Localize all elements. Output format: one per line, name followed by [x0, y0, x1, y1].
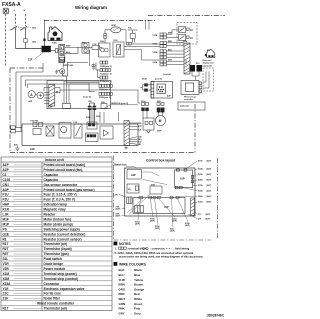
- svg-text:Blue: Blue: [134, 273, 141, 277]
- float switch S1L: [128, 30, 138, 43]
- svg-text:ORG: ORG: [119, 287, 126, 291]
- svg-text:Capacitor: Capacitor: [44, 173, 59, 177]
- relay K circle box: [59, 123, 71, 139]
- svg-text:Z1C: Z1C: [3, 292, 10, 296]
- L1R layout box: [127, 197, 132, 204]
- earth mark small: [55, 70, 60, 74]
- border left-top horizontal: [10, 67, 44, 69]
- svg-text:Wired remote controller: Wired remote controller: [37, 302, 75, 306]
- svg-text:PS: PS: [3, 227, 7, 231]
- connector column X50A: [99, 92, 112, 95]
- svg-text:F1U: F1U: [93, 44, 97, 46]
- fan wire labels: [138, 123, 143, 146]
- field wiring dashed box right: [203, 68, 214, 91]
- border bottom: [10, 152, 195, 154]
- fuse F1U: [89, 46, 103, 50]
- border right: [194, 104, 196, 153]
- fuse on N line: [24, 39, 27, 43]
- bottom callout leaders: [138, 199, 188, 228]
- svg-text:X16A: X16A: [153, 43, 158, 46]
- wires X1M to component row: [62, 47, 82, 76]
- svg-text:X35A: X35A: [153, 61, 158, 64]
- svg-text:Printed circuit board (fan): Printed circuit board (fan): [44, 168, 83, 172]
- wired remote text: [184, 96, 196, 102]
- svg-text:X24A(note 2): X24A(note 2): [100, 65, 112, 68]
- svg-text:(A1P): (A1P): [170, 230, 175, 233]
- pump pair: [126, 43, 131, 45]
- svg-text:controller: controller: [184, 98, 193, 101]
- svg-text:Y1E: Y1E: [3, 287, 9, 291]
- svg-text:C1R: C1R: [88, 101, 92, 103]
- earth top label line: [104, 105, 138, 109]
- svg-text:X25A: X25A: [153, 51, 158, 54]
- svg-text:X1M: X1M: [52, 43, 57, 45]
- svg-text::: :: [131, 297, 132, 301]
- svg-text:Brown: Brown: [134, 283, 143, 287]
- ground near connector column: [90, 50, 96, 69]
- svg-text:GRY: GRY: [119, 311, 125, 315]
- fan motor M1F: [156, 116, 166, 126]
- svg-text:Z1F: Z1F: [3, 297, 9, 301]
- svg-text:X33A: X33A: [198, 184, 203, 187]
- K1R relay right: [143, 118, 154, 133]
- svg-text:Ferrite core: Ferrite core: [44, 292, 62, 296]
- svg-text:X50A(note 2): X50A(note 2): [99, 96, 111, 99]
- border left: [9, 68, 11, 153]
- svg-text:FXSA-A: FXSA-A: [2, 2, 21, 8]
- svg-text:GRN/YLW: GRN/YLW: [64, 65, 73, 67]
- right callout column: [198, 160, 212, 221]
- svg-text:Control: Control: [163, 73, 171, 76]
- svg-text::: :: [131, 307, 132, 311]
- border top: [44, 19, 155, 21]
- svg-text:Thermistor (liquid): Thermistor (liquid): [44, 247, 72, 251]
- A2P box layout: [127, 170, 141, 180]
- svg-text:1.: 1.: [115, 247, 117, 251]
- remote controller nested box: [181, 81, 202, 95]
- svg-text:Printed circuit board (main): Printed circuit board (main): [44, 163, 86, 167]
- svg-text:White: White: [134, 297, 142, 301]
- svg-text:Wiring diagram: Wiring diagram: [75, 5, 107, 10]
- stubs on wide box: [139, 196, 179, 198]
- bottom callouts: [135, 218, 190, 233]
- code leader lines: [14, 165, 42, 309]
- A1P pcb layout box: [175, 169, 194, 189]
- svg-text:X2M: X2M: [151, 184, 155, 186]
- svg-text:(A1P): (A1P): [207, 179, 212, 182]
- board bottom stubs: [100, 112, 119, 123]
- svg-text:(optional): (optional): [203, 64, 212, 67]
- parts table: [1, 157, 112, 311]
- svg-text:(A1P): (A1P): [206, 218, 211, 221]
- svg-text:Switching power supply: Switching power supply: [44, 227, 81, 231]
- optional accessory box: [178, 102, 205, 110]
- Z1F label: [28, 53, 43, 62]
- svg-text:Diode bridge: Diode bridge: [44, 262, 64, 266]
- svg-text:X8A: X8A: [101, 101, 105, 104]
- svg-text:(A1P): (A1P): [116, 215, 121, 218]
- svg-text:2. X24A, X33A, X35A,X40A,X50A: 2. X24A, X33A, X35A,X40A,X50A are connec…: [115, 251, 194, 255]
- svg-text:(A1P): (A1P): [207, 184, 212, 187]
- board edge hatched connector: [124, 121, 129, 146]
- A3P feed connectors: [141, 84, 152, 92]
- left inside leaders: [141, 172, 167, 185]
- svg-text:(A1P): (A1P): [135, 223, 140, 226]
- svg-text:Fuse (T, 3.15 A, 250 V): Fuse (T, 3.15 A, 250 V): [44, 193, 77, 197]
- svg-text:A3P: A3P: [3, 188, 10, 192]
- thermistor boxes in dashed area: [179, 27, 190, 41]
- svg-text:R3T: R3T: [3, 252, 9, 256]
- svg-text:C105: C105: [113, 40, 118, 42]
- svg-text:Thermistor (air): Thermistor (air): [44, 307, 68, 311]
- svg-text:X15A: X15A: [153, 34, 158, 37]
- capacitors C1: [88, 103, 96, 124]
- svg-text:accessories are being used, se: accessories are being used, see wiring d…: [119, 255, 203, 259]
- svg-text:YLW: YLW: [119, 278, 126, 282]
- wire colours header: [114, 262, 118, 266]
- svg-text::: :: [131, 268, 132, 272]
- svg-text:Thermistor (gas): Thermistor (gas): [44, 252, 69, 256]
- svg-text:L1R: L1R: [74, 122, 78, 124]
- svg-text:Indoor unit: Indoor unit: [45, 158, 65, 162]
- supply L wire: [15, 14, 17, 26]
- ferrite Z1C pair: [82, 43, 89, 54]
- diag arrow box: [74, 124, 82, 138]
- svg-text:Capacitor: Capacitor: [44, 178, 59, 182]
- wire to X16A: [132, 43, 160, 45]
- gas sensor board A3P: [151, 82, 173, 99]
- svg-text:Z1C: Z1C: [196, 63, 200, 65]
- svg-text:M1F: M1F: [3, 217, 9, 221]
- svg-text:Thermistor (air): Thermistor (air): [44, 242, 68, 246]
- meter wires: [35, 88, 60, 104]
- svg-text:Terminal strip (control): Terminal strip (control): [44, 277, 79, 281]
- house feed wire: [43, 20, 45, 47]
- noise filter Z1F black box: [42, 46, 51, 52]
- svg-text::: :: [131, 278, 132, 282]
- left callouts: [116, 207, 121, 218]
- svg-text:X1M: X1M: [3, 272, 10, 276]
- svg-text:NOTES: NOTES: [119, 242, 131, 246]
- wires from S1L to row: [121, 30, 135, 43]
- svg-text:Receiver/: Receiver/: [203, 60, 212, 62]
- svg-text:X21A: X21A: [141, 100, 146, 103]
- pump box 1: [99, 43, 111, 57]
- svg-text:X23A: X23A: [86, 116, 91, 119]
- earth terminal: [60, 69, 65, 74]
- svg-text:(note 2): (note 2): [83, 95, 91, 98]
- svg-text:Z1C: Z1C: [82, 43, 86, 45]
- ground below board mid: [124, 146, 128, 149]
- svg-text:display unit: display unit: [203, 62, 214, 65]
- colour legend: [119, 268, 145, 315]
- svg-text:(A1P): (A1P): [185, 224, 190, 227]
- svg-text:Switch box: Switch box: [114, 164, 127, 167]
- mid-right wires to strip: [167, 30, 184, 65]
- terminal bar small: [135, 206, 144, 213]
- connector column X40A: [99, 84, 112, 87]
- note 1: [115, 247, 190, 251]
- diagonal leaders inside box: [127, 194, 150, 215]
- svg-text:(A1P): (A1P): [207, 201, 212, 204]
- X2M layout box: [150, 186, 162, 194]
- svg-text:Resistor (current detection): Resistor (current detection): [44, 232, 86, 236]
- svg-text:K1R: K1R: [3, 208, 10, 212]
- svg-text:RED: RED: [119, 292, 125, 296]
- svg-text:(A1P): (A1P): [207, 160, 212, 163]
- svg-text:BLU: BLU: [119, 273, 125, 277]
- svg-text:X40A: X40A: [198, 195, 203, 198]
- svg-text:X15A: X15A: [3, 282, 12, 286]
- svg-text:A1P: A1P: [30, 148, 35, 151]
- svg-text::: :: [131, 311, 132, 315]
- M1F connector: [157, 103, 164, 116]
- K1R feed: [142, 103, 149, 119]
- svg-text:F3U F4U: F3U F4U: [31, 120, 39, 123]
- wire color labels mid: [168, 33, 173, 62]
- svg-text:X20A: X20A: [198, 173, 203, 176]
- svg-text:(A1P): (A1P): [207, 190, 212, 193]
- svg-text:R2T: R2T: [3, 247, 9, 251]
- control box outline: [125, 168, 195, 216]
- notes header: [114, 242, 118, 246]
- connector pairs X16A: [160, 42, 166, 48]
- table codes column: [3, 163, 12, 311]
- svg-text:16A: 16A: [32, 27, 36, 30]
- inner sub board: [86, 122, 114, 142]
- svg-text:Orange: Orange: [134, 287, 145, 291]
- svg-text:CN1: CN1: [3, 183, 10, 187]
- svg-text:S1L: S1L: [3, 257, 9, 261]
- left nested wires: [16, 63, 100, 132]
- svg-text:(A1P): (A1P): [150, 220, 155, 223]
- svg-text::: :: [131, 302, 132, 306]
- svg-text:X4A: X4A: [100, 40, 104, 43]
- svg-text:Pink: Pink: [134, 307, 140, 311]
- svg-text:WHT: WHT: [119, 297, 126, 301]
- svg-text:Motor (indoor fan): Motor (indoor fan): [44, 217, 71, 221]
- receiver house icon: [205, 49, 215, 57]
- meter circle 2: [37, 92, 44, 99]
- svg-text:Control box layout: Control box layout: [146, 159, 176, 163]
- svg-text:WIRE COLOURS: WIRE COLOURS: [119, 263, 146, 267]
- svg-text:BRN: BRN: [119, 283, 125, 287]
- svg-text:PNK: PNK: [119, 307, 126, 311]
- connector pairs column mid X15A: [160, 33, 166, 39]
- svg-text:A2P: A2P: [131, 174, 136, 177]
- svg-text:Reactor: Reactor: [44, 213, 57, 217]
- svg-text:C105: C105: [3, 178, 11, 182]
- DIP box layout: [127, 184, 139, 193]
- svg-text:M1P: M1P: [112, 25, 117, 27]
- svg-text:Terminal strip (power): Terminal strip (power): [44, 272, 77, 276]
- connector column X33A: [100, 69, 111, 72]
- svg-text:(optional): (optional): [180, 105, 189, 108]
- connector column X35A: [100, 76, 108, 79]
- svg-text:16A: 16A: [32, 40, 36, 43]
- ferrite cores Z1C right: [190, 65, 196, 72]
- fuse boxes F3U F4U: [33, 123, 43, 127]
- left feed wires: [11, 126, 22, 133]
- svg-text:X35A: X35A: [198, 201, 203, 204]
- svg-text:GRN: GRN: [119, 302, 125, 306]
- breaker 2: [20, 26, 27, 30]
- svg-text:Q1E: Q1E: [3, 232, 9, 236]
- right strip X2M hatched: [184, 43, 190, 74]
- svg-text:Resistor (current sensor): Resistor (current sensor): [44, 237, 82, 241]
- unit boundary dash-dot: [10, 16, 225, 153]
- hatch strip right wall: [191, 198, 195, 216]
- svg-text:A1P: A1P: [3, 163, 10, 167]
- svg-text:4-5P: 4-5P: [48, 106, 53, 109]
- svg-text:M1P: M1P: [3, 222, 10, 226]
- svg-text:Black: Black: [134, 268, 142, 272]
- svg-text:Electronic expansion valve: Electronic expansion valve: [44, 287, 85, 291]
- svg-text:Green: Green: [134, 302, 143, 306]
- svg-text:Power module: Power module: [44, 267, 66, 271]
- strip wires right: [64, 81, 99, 124]
- svg-text:(A1P): (A1P): [116, 208, 121, 211]
- svg-text:M: M: [159, 119, 162, 123]
- note1 symbols: [119, 247, 172, 249]
- control box layout section border: [114, 156, 218, 241]
- svg-text:L1R: L1R: [3, 213, 10, 217]
- svg-text:A2P: A2P: [3, 168, 10, 172]
- note 2: [115, 251, 204, 259]
- resistor box: [33, 129, 41, 135]
- svg-text:X27A: X27A: [198, 160, 203, 163]
- receiver text: [203, 60, 214, 67]
- svg-text:HAP: HAP: [3, 203, 11, 207]
- supply N wire: [25, 14, 27, 26]
- svg-text:(A1P): (A1P): [207, 173, 212, 176]
- A1P board box: [22, 124, 138, 146]
- svg-text:X24A: X24A: [198, 179, 203, 182]
- connector pairs X35A-2: [160, 60, 166, 66]
- svg-text:R1T: R1T: [3, 307, 9, 311]
- svg-text:Red: Red: [134, 292, 140, 296]
- svg-text:F2U: F2U: [3, 198, 10, 202]
- wire up to drain pump: [104, 30, 111, 43]
- drain pump M1P: [111, 27, 121, 33]
- connector column X24A: [100, 61, 108, 64]
- fan out wires: [129, 123, 137, 144]
- svg-text:Float switch: Float switch: [44, 257, 62, 261]
- earth field wire: [5, 14, 7, 66]
- X2M terminal strip hatched: [49, 85, 55, 107]
- svg-text:X12A: X12A: [142, 78, 147, 81]
- svg-text:R1: R1: [3, 237, 7, 241]
- optional sensor dashed box top right: [177, 23, 197, 45]
- power intake house icon: [48, 27, 62, 41]
- svg-text:3D028746C: 3D028746C: [207, 314, 225, 318]
- wires to remote: [186, 60, 209, 88]
- svg-text:L1R: L1R: [114, 194, 119, 196]
- svg-text:(A1P): (A1P): [206, 213, 211, 216]
- power supply field wiring dashed: [6, 14, 26, 66]
- svg-text:L: L: [61, 46, 63, 50]
- table descriptions column: [44, 163, 95, 311]
- svg-text:BLK: BLK: [119, 268, 126, 272]
- svg-text:V2R: V2R: [3, 267, 10, 271]
- svg-text:Fuse (T, 6.3 A, 250 V): Fuse (T, 6.3 A, 250 V): [44, 198, 75, 202]
- svg-text:Motor (drain pump): Motor (drain pump): [44, 222, 73, 226]
- svg-text::: :: [131, 273, 132, 277]
- svg-text:Grey: Grey: [134, 311, 141, 315]
- svg-text:F1U: F1U: [3, 193, 10, 197]
- transmission wires to right section: [60, 47, 160, 104]
- svg-text:: connector,: : connector,: [150, 247, 165, 251]
- supply wires solid: [16, 29, 43, 49]
- X15A risers: [146, 20, 150, 29]
- svg-text:Z1F: Z1F: [28, 59, 33, 62]
- svg-text:(A1P): (A1P): [207, 195, 212, 198]
- svg-text:X33A(note 2): X33A(note 2): [100, 72, 112, 75]
- terminal X1M box: [51, 45, 65, 63]
- table row lines: [1, 167, 112, 306]
- svg-text:A1P: A1P: [180, 178, 185, 181]
- svg-text:S1L: S1L: [128, 27, 133, 29]
- svg-text:Yellow: Yellow: [134, 278, 144, 282]
- svg-text:X50A: X50A: [198, 190, 203, 193]
- svg-text:X2M: X2M: [3, 277, 10, 281]
- svg-text:C1: C1: [3, 173, 7, 177]
- svg-text:(A1P): (A1P): [155, 227, 160, 230]
- svg-text::: :: [131, 287, 132, 291]
- X8A bottom connector: [101, 104, 107, 109]
- svg-text:X40A(note 2): X40A(note 2): [99, 88, 111, 91]
- svg-text:Noise filter: Noise filter: [44, 297, 61, 301]
- svg-text:R1T: R1T: [3, 242, 9, 246]
- svg-text::: :: [131, 292, 132, 296]
- mark icon: [3, 8, 8, 14]
- svg-text:(A1P): (A1P): [207, 168, 212, 171]
- wide A1P bottom box: [133, 198, 185, 214]
- svg-text:X30A: X30A: [198, 168, 203, 171]
- breaker 1: [10, 26, 17, 30]
- svg-text:(note 2): (note 2): [155, 78, 162, 81]
- svg-text:Magnetic relay: Magnetic relay: [44, 208, 66, 212]
- svg-text:X20A: X20A: [96, 115, 101, 118]
- right callout leaders: [179, 161, 198, 219]
- svg-text:N: N: [61, 52, 63, 56]
- svg-text:Connector: Connector: [44, 282, 61, 286]
- svg-text:Gas sensor connector: Gas sensor connector: [44, 183, 78, 187]
- svg-text:GRN/YLW (note 2): GRN/YLW (note 2): [111, 102, 128, 105]
- meter circle A: [28, 91, 35, 98]
- svg-text:X2M: X2M: [183, 41, 187, 43]
- relay X box: [46, 126, 54, 136]
- pump box 2: [113, 42, 124, 57]
- svg-text:Printed circuit board (gas sen: Printed circuit board (gas sensor): [44, 188, 95, 192]
- svg-text::: :: [131, 283, 132, 287]
- svg-text:Indication lamp: Indication lamp: [44, 203, 67, 207]
- svg-text:: field wiring: : field wiring: [174, 247, 190, 251]
- terminal sub box: [47, 81, 111, 109]
- svg-text:V1R: V1R: [3, 262, 10, 266]
- breaker label: [13, 26, 31, 28]
- connector pairs X25A: [160, 50, 166, 59]
